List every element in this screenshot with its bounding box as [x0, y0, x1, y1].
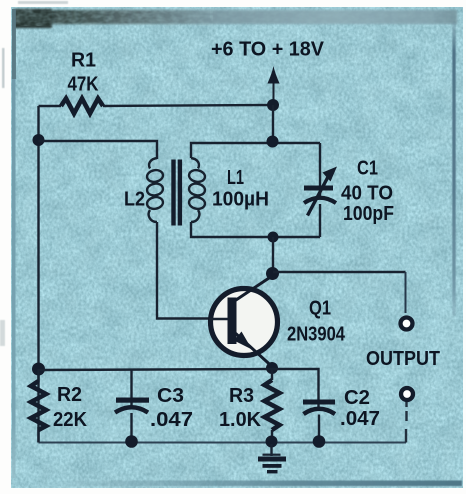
svg-text:OUTPUT: OUTPUT — [366, 348, 440, 370]
label R3 — [229, 385, 254, 407]
node left rail emitter-row junction — [32, 363, 45, 376]
label Q1 — [309, 298, 331, 320]
svg-text:C1: C1 — [357, 158, 378, 180]
wire: tank bottom to collector junction — [272, 237, 274, 273]
label 1.0K — [219, 409, 262, 431]
node left rail junction — [33, 134, 45, 146]
label C3 — [157, 385, 184, 407]
wire: tank bottom (L1 to C1) — [191, 222, 320, 237]
label 47K — [68, 74, 99, 96]
transistor Q1 — [209, 276, 278, 366]
svg-text:2N3904: 2N3904 — [287, 324, 346, 346]
capacitor C2 — [303, 400, 335, 443]
node R3 bottom junction — [266, 436, 278, 448]
capacitor C1 (variable) — [304, 143, 337, 237]
inductor L1 — [188, 158, 206, 222]
wire: emitter to C2 corner — [272, 369, 319, 410]
label R2 — [57, 384, 82, 406]
label L1 — [227, 167, 244, 189]
label 2N3904 — [287, 324, 346, 346]
svg-text:R1: R1 — [71, 50, 96, 72]
transformer core — [171, 160, 182, 226]
label 40 TO — [341, 183, 393, 205]
svg-text:47K: 47K — [68, 74, 99, 96]
wire: tank top (L1 to C1) — [191, 143, 320, 158]
node C2 bottom junction — [313, 435, 326, 448]
output terminal 2 — [401, 388, 413, 400]
label .047 C3 — [150, 409, 193, 431]
node supply junction — [267, 99, 279, 111]
wire: R1 row to supply junction — [39, 105, 274, 106]
wire: L2 bottom to base — [157, 222, 228, 319]
capacitor C3 — [115, 370, 149, 443]
svg-text:L2: L2 — [124, 189, 145, 211]
scan margin artifacts — [0, 1, 68, 346]
node tank top junction — [267, 136, 279, 148]
supply arrow — [267, 66, 279, 102]
output terminal 1 — [401, 318, 413, 330]
label .047 C2 — [340, 408, 380, 430]
svg-text:100pF: 100pF — [343, 203, 394, 225]
label 100uH — [212, 189, 269, 211]
svg-text:R3: R3 — [229, 385, 254, 407]
svg-text:22K: 22K — [53, 409, 88, 431]
label +6 TO + 18V — [211, 39, 325, 61]
wire: output lower drop — [405, 402, 408, 443]
border frame top — [13, 8, 457, 28]
node emitter junction — [266, 362, 278, 374]
svg-text:+6 TO + 18V: +6 TO + 18V — [211, 39, 325, 61]
svg-text:Q1: Q1 — [309, 298, 331, 320]
label 100pF — [343, 203, 394, 225]
wire: left rail vertical — [37, 106, 39, 443]
ground — [258, 444, 286, 473]
wire: bottom rail — [39, 441, 407, 443]
svg-text:100µH: 100µH — [212, 189, 269, 211]
border frame right — [452, 22, 455, 316]
node tank bottom junction — [268, 232, 279, 243]
node collector junction — [266, 267, 279, 280]
svg-text:L1: L1 — [227, 167, 244, 189]
label R1 — [71, 50, 96, 72]
label OUTPUT — [366, 348, 440, 370]
inductor L2 — [146, 158, 164, 222]
svg-text:R2: R2 — [57, 384, 82, 406]
label 22K — [53, 409, 88, 431]
svg-text:.047: .047 — [150, 409, 193, 431]
resistor R3 — [265, 368, 280, 443]
wire: emitter row (left rail to emitter) — [39, 369, 273, 370]
svg-text:C2: C2 — [344, 387, 370, 409]
wire: left junction to L2 top — [39, 141, 158, 159]
label C1 — [357, 158, 378, 180]
resistor R1 — [61, 99, 103, 114]
svg-text:1.0K: 1.0K — [219, 409, 262, 431]
label C2 — [344, 387, 370, 409]
wire: supply down to tank top — [272, 105, 274, 142]
resistor R2 — [31, 369, 46, 443]
label L2 — [124, 189, 145, 211]
svg-text:40 TO: 40 TO — [341, 183, 393, 205]
svg-text:.047: .047 — [340, 408, 380, 430]
node C3 bottom junction — [125, 435, 138, 448]
border frame bottom — [40, 481, 462, 487]
wire: collector junction to output terminal 1 — [273, 272, 406, 313]
svg-text:C3: C3 — [157, 385, 184, 407]
border frame left — [12, 9, 16, 478]
